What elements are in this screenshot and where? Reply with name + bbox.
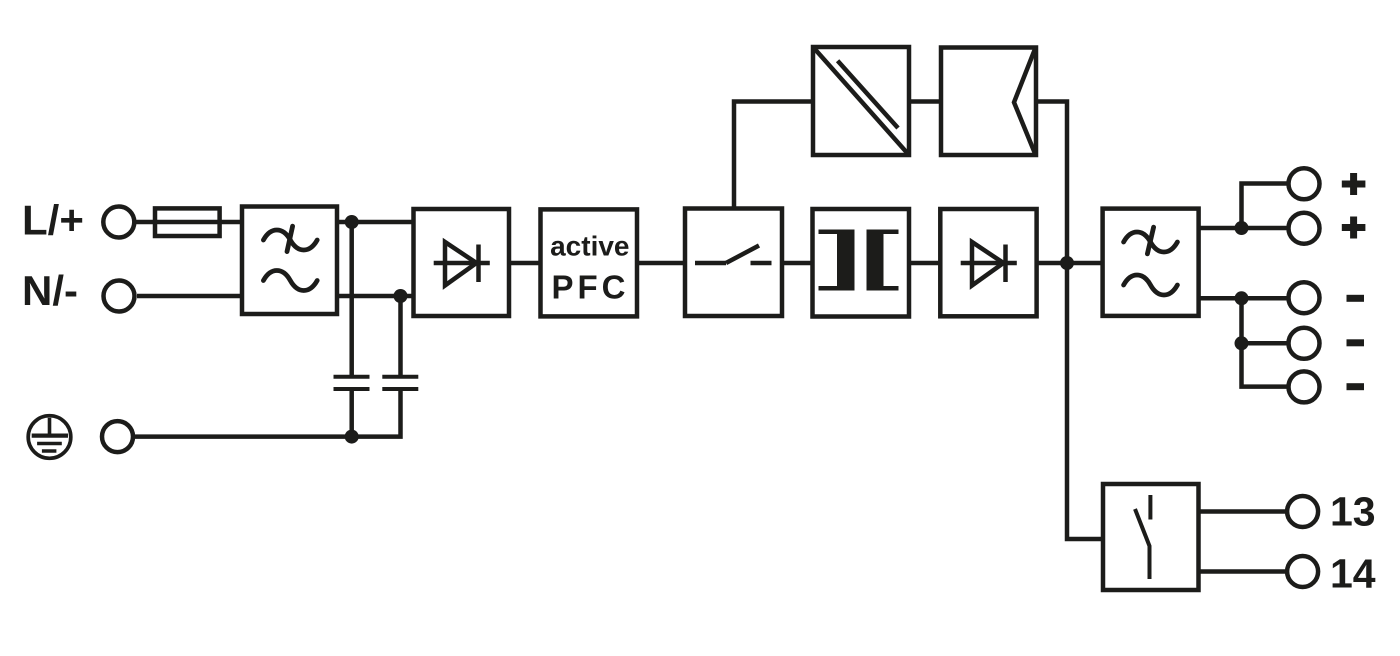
junction dot minus upper [1235,291,1249,305]
wire transformer to diode [909,261,940,266]
wire PFC to switch [637,261,685,266]
label minus 2 [1347,339,1365,346]
junction dot N [394,289,408,303]
wire cap2 upper [398,296,403,376]
svg-text:14: 14 [1330,551,1376,597]
wire switch to control top [734,102,813,209]
wire switch to transformer [782,261,813,266]
block active PFC [541,209,638,316]
wire relay 14 [1199,569,1288,574]
terminal minus 2 [1289,328,1320,359]
block switch [685,209,782,317]
junction dot PE [345,430,359,444]
relay contact symbol [1135,495,1150,579]
diode symbol output [961,242,1017,286]
terminal plus 1 [1289,168,1320,199]
wire cap1 lower [349,390,354,437]
filter output wave plain [1124,275,1178,295]
terminal plus 2 [1289,213,1320,244]
block regulator top [941,48,1036,156]
wire rectifier to PFC [509,261,541,266]
wire node to relay [1067,263,1103,539]
terminal minus 1 [1289,282,1320,313]
wire N filter to rectifier [337,294,414,299]
capacitor C2 [382,377,418,389]
terminal N/- [104,281,135,312]
converter diagonal main [813,47,909,155]
converter diagonal secondary [838,61,898,128]
svg-text:L/+: L/+ [22,197,84,244]
terminal 13 [1287,496,1318,527]
label minus 1 [1347,295,1365,302]
filter input wave plain [263,271,317,291]
filter output wave crossed [1124,227,1178,254]
label plus 2 [1342,217,1366,239]
terminal PE [102,421,133,452]
wire relay 13 [1199,509,1288,514]
block rectifier input [414,209,510,316]
switch symbol [695,246,772,264]
transformer windings [819,230,899,291]
ground PE symbol [28,416,71,459]
svg-text:N/-: N/- [22,267,78,314]
terminal L/+ [103,207,134,238]
svg-text:PFC: PFC [552,269,630,306]
fuse wire through [155,220,220,225]
svg-text:13: 13 [1330,488,1376,534]
junction dot minus lower [1235,336,1249,350]
wire output plus [1199,226,1287,231]
terminal 14 [1287,556,1318,587]
junction dot L [345,215,359,229]
wire cap1 upper [349,222,354,376]
block relay [1103,484,1199,590]
diode symbol rectifier [434,242,490,286]
wire output minus branch mid [1242,298,1288,343]
filter input wave crossed [263,226,317,251]
wire output plus branch up [1242,184,1288,229]
terminal minus 3 [1289,371,1320,402]
wire output minus branch low [1242,343,1288,386]
wire PE ground run [135,391,401,437]
wire output minus [1199,296,1287,301]
label minus 3 [1347,383,1365,390]
fuse F1 [155,208,220,236]
block EMC filter input [242,207,337,315]
svg-text:active: active [550,231,629,262]
label plus 1 [1342,173,1366,195]
wire control feedback down [1036,102,1067,264]
wire L filter to rectifier [337,220,414,225]
block DC converter top [813,47,909,155]
junction dot plus [1235,221,1249,235]
regulator chevron [1014,49,1035,154]
wire L input [136,220,242,225]
wire control box1 to box2 [909,99,941,104]
block rectifier output [940,209,1036,316]
wire N input [137,294,242,299]
block transformer [813,209,910,317]
wire diode to output filter [1037,261,1103,266]
junction dot output node [1060,256,1074,270]
capacitor C1 [334,377,370,389]
block output filter [1103,209,1199,316]
